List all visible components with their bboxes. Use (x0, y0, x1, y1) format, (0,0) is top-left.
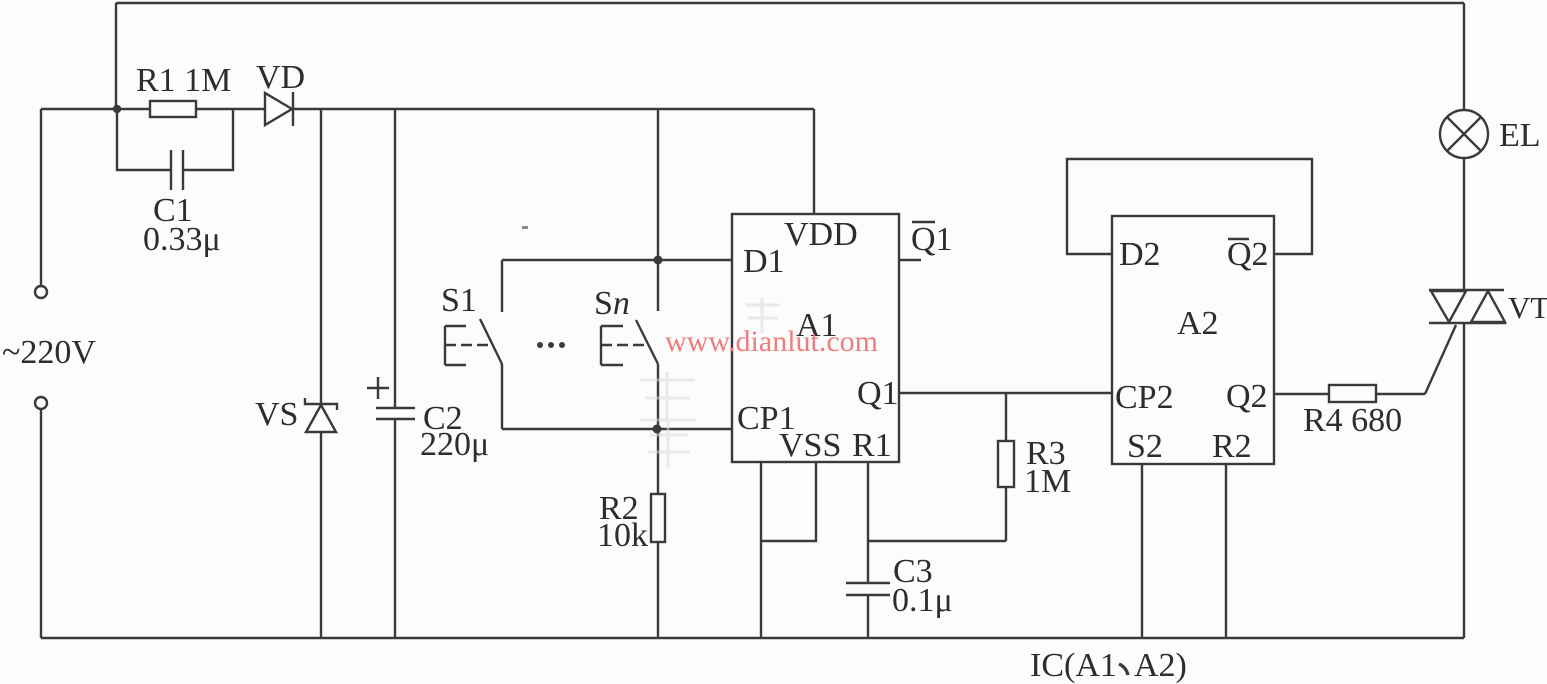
capacitor C3 (846, 553, 953, 619)
wire R2 to bottom bus (657, 542, 659, 638)
svg-text:R2: R2 (1212, 428, 1252, 465)
svg-text:A2): A2) (1134, 647, 1187, 684)
wire left drop from top bus to R1 node (115, 3, 117, 109)
wire C2 branch upper (394, 109, 396, 408)
dots ellipsis between switches (537, 342, 565, 348)
wire C3 to bottom bus (867, 595, 869, 638)
wire C2 branch lower (394, 419, 396, 638)
IC A2 box (1112, 216, 1274, 465)
terminal lower circle (35, 397, 47, 409)
svg-text:0.33μ: 0.33μ (143, 221, 221, 258)
svg-text:S2: S2 (1127, 428, 1163, 465)
terminal upper circle (35, 286, 47, 298)
wire EL to VT (1463, 158, 1465, 290)
svg-text:VT: VT (1508, 290, 1547, 325)
wire Q2 to R4 (1274, 393, 1329, 395)
wire A1 pin VSS right (761, 462, 816, 541)
wire VT to bottom bus (1463, 323, 1465, 638)
svg-text:Q1: Q1 (857, 375, 899, 412)
wire S1 bottom (501, 364, 503, 429)
wire VS branch lower (320, 432, 322, 638)
wire left terminal lower (40, 409, 42, 638)
svg-text:D2: D2 (1119, 236, 1161, 273)
svg-text:1M: 1M (1024, 463, 1071, 500)
switch S1 (441, 260, 502, 365)
svg-text:VD: VD (256, 59, 305, 96)
svg-text:VS: VS (255, 396, 298, 433)
wire R1 pin to R3 (868, 540, 1006, 542)
node junction on D1 net (654, 256, 663, 265)
svg-text:R4 680: R4 680 (1303, 402, 1402, 439)
resistor R1 (136, 62, 231, 117)
wire top bus (116, 2, 1464, 4)
node junction at R1 input (113, 105, 121, 113)
svg-text:0.1μ: 0.1μ (892, 582, 953, 619)
wire R3 bottom lead (1005, 487, 1007, 541)
svg-text:Q2: Q2 (1226, 378, 1268, 415)
svg-text:www.dianlut.com: www.dianlut.com (665, 325, 878, 358)
capacitor C1 (143, 150, 221, 258)
zener diode VS (255, 396, 337, 433)
svg-text:D1: D1 (743, 243, 785, 280)
svg-text:S1: S1 (441, 282, 477, 319)
wire VD to VDD pin (293, 108, 814, 110)
wire bottom bus (41, 637, 1464, 639)
pin Q1-bar stub of A1 (900, 221, 953, 260)
node junction on CP1 net (653, 425, 662, 434)
svg-text:10k: 10k (597, 517, 648, 554)
pin Q2-bar label of A2 (1227, 236, 1269, 273)
wire feedback staple D2 to Q2-bar (1067, 159, 1312, 254)
wire CP1 net (502, 428, 731, 430)
wire Q1 to CP2 (900, 392, 1111, 394)
svg-text:VSS: VSS (779, 427, 841, 464)
diode VD (256, 59, 305, 126)
wire A2 pin R2 to bus (1225, 464, 1227, 638)
resistor R3 (998, 435, 1071, 500)
wire triac gate diagonal (1425, 325, 1456, 394)
svg-text:220μ: 220μ (420, 426, 489, 463)
resistor R2 (597, 490, 665, 554)
wire mains live to R1 (41, 108, 150, 110)
wire from VD net down to D1 net (657, 110, 659, 311)
wire A1 pin R1 down (867, 462, 869, 583)
wire D1 net (502, 259, 731, 261)
capacitor C1 branch wires (117, 109, 233, 170)
wire R1 to VD (196, 108, 265, 110)
wire left terminal upper (40, 109, 42, 286)
tiny speck artifact (522, 226, 528, 229)
resistor R4 (1303, 385, 1402, 439)
svg-text:R1: R1 (852, 427, 892, 464)
svg-text:IC(A1: IC(A1 (1030, 647, 1117, 684)
wire R3 top lead (1005, 393, 1007, 441)
svg-text:Sn: Sn (594, 285, 630, 322)
capacitor C2 polarity plus (367, 377, 389, 399)
svg-text:A2: A2 (1177, 305, 1219, 342)
wire top bus down to EL (1463, 3, 1465, 110)
wire VS branch upper (320, 109, 322, 404)
wire A1 pin VSS left to bus (760, 462, 762, 638)
svg-text:R1 1M: R1 1M (136, 62, 231, 99)
lamp EL (1440, 110, 1541, 158)
svg-text:Q2: Q2 (1227, 236, 1269, 273)
svg-text:CP2: CP2 (1115, 379, 1174, 416)
wire VDD pin drop (813, 109, 815, 215)
triac VT (1429, 290, 1547, 325)
switch Sn (594, 285, 658, 365)
capacitor C2 (376, 400, 489, 463)
wire R4 to gate elbow (1376, 393, 1425, 395)
faint scan watermark smudges (640, 298, 780, 468)
svg-text:VDD: VDD (784, 216, 858, 253)
wire A2 pin S2 to bus (1141, 464, 1143, 638)
svg-text:~220V: ~220V (2, 334, 96, 371)
svg-text:Q1: Q1 (911, 221, 953, 258)
svg-text:EL: EL (1499, 117, 1541, 154)
wire Sn bottom to R2 (657, 364, 659, 494)
IC A1 box (732, 214, 899, 464)
